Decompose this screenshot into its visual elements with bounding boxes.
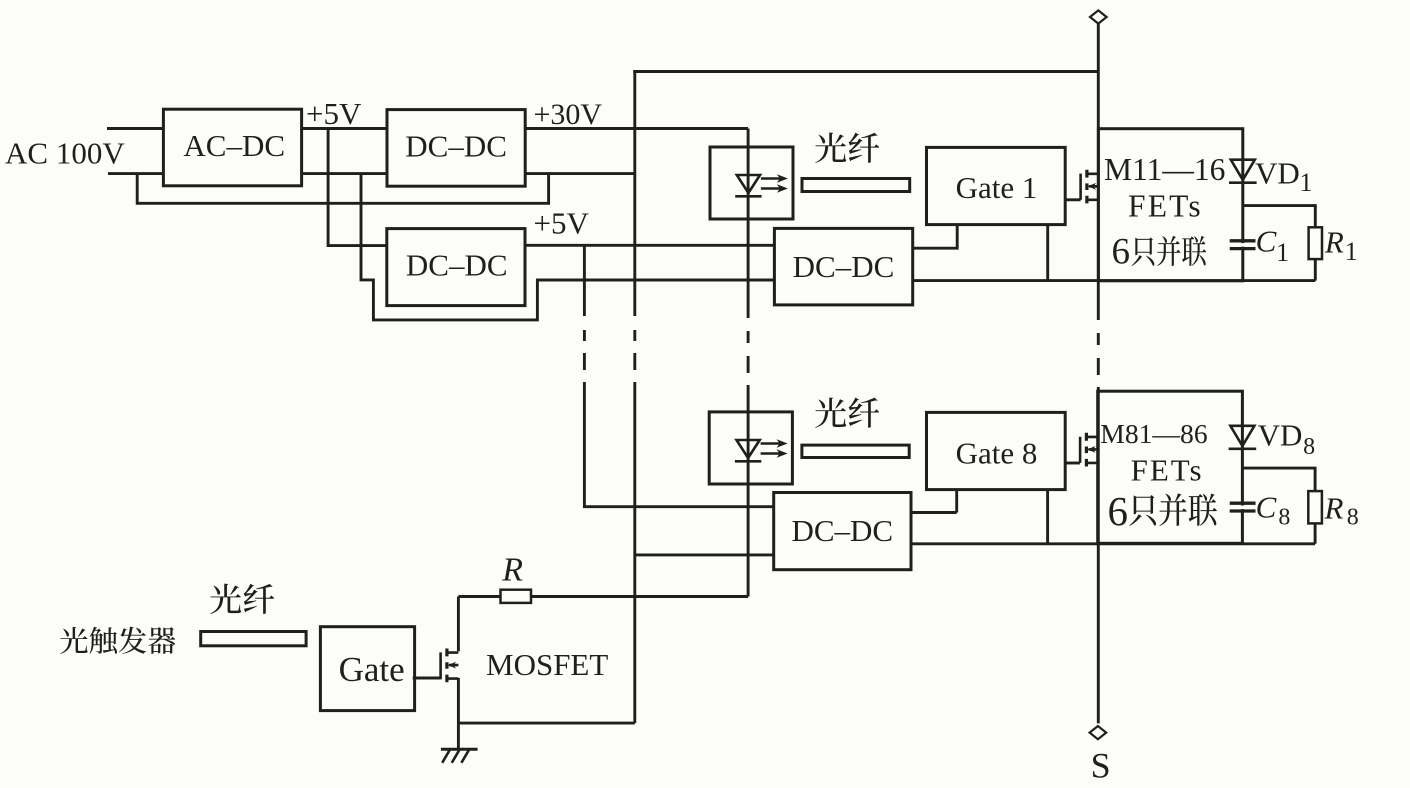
svg-text:FETs: FETs — [1131, 452, 1204, 487]
svg-text:Gate 8: Gate 8 — [956, 436, 1038, 471]
svg-text:VD: VD — [1258, 417, 1303, 452]
svg-text:R: R — [1324, 225, 1344, 260]
svg-text:8: 8 — [1278, 504, 1290, 530]
svg-text:C: C — [1256, 490, 1277, 525]
svg-text:VD: VD — [1255, 155, 1300, 190]
svg-text:1: 1 — [1345, 237, 1358, 266]
svg-text:M81—86: M81—86 — [1100, 418, 1207, 449]
svg-text:AC 100V: AC 100V — [5, 136, 125, 171]
svg-text:C: C — [1256, 224, 1277, 259]
svg-text:+5V: +5V — [306, 96, 362, 131]
svg-text:DC–DC: DC–DC — [406, 247, 508, 282]
svg-text:DC–DC: DC–DC — [405, 129, 507, 164]
svg-text:8: 8 — [1347, 505, 1359, 531]
svg-text:6: 6 — [1112, 232, 1131, 273]
svg-text:R: R — [501, 551, 523, 588]
svg-text:Gate 1: Gate 1 — [956, 170, 1038, 205]
svg-text:+30V: +30V — [534, 98, 603, 131]
svg-text:DC–DC: DC–DC — [793, 249, 895, 284]
svg-text:Gate: Gate — [339, 650, 405, 689]
svg-text:+5V: +5V — [534, 205, 590, 240]
svg-text:AC–DC: AC–DC — [183, 128, 285, 163]
svg-text:FETs: FETs — [1128, 189, 1203, 224]
svg-text:1: 1 — [1276, 238, 1289, 267]
svg-text:MOSFET: MOSFET — [486, 647, 608, 682]
svg-text:DC–DC: DC–DC — [791, 513, 893, 548]
svg-text:1: 1 — [1300, 168, 1313, 197]
svg-text:8: 8 — [1303, 434, 1315, 460]
svg-text:6: 6 — [1108, 488, 1129, 534]
svg-text:R: R — [1324, 490, 1344, 525]
svg-text:M11—16: M11—16 — [1104, 152, 1225, 187]
svg-text:S: S — [1091, 746, 1111, 786]
